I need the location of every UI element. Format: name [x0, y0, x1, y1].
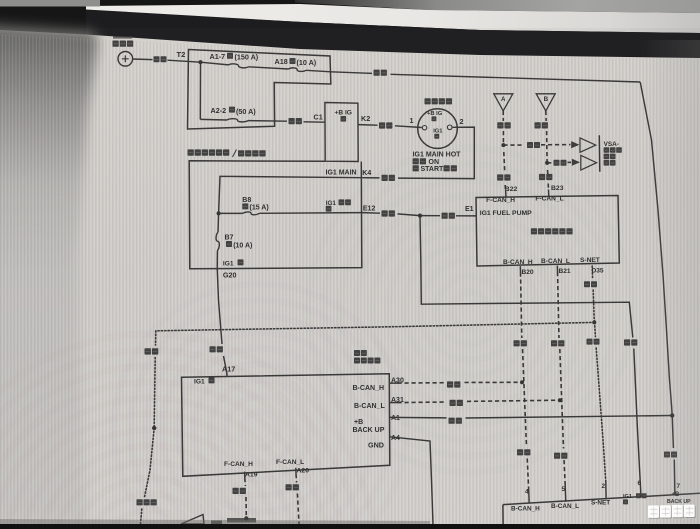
wire fuse B8 junction down to fuse B7 [217, 213, 220, 232]
ignition switch pin 1 contact [422, 126, 426, 130]
color label brown on A17 wire [210, 346, 216, 352]
junction dot white F-CAN_H [501, 143, 505, 147]
color label blue (lan-se) on K4 wire [382, 175, 388, 181]
fuse A18 element [289, 68, 307, 72]
dashed wire white to VSA [503, 144, 524, 146]
cut-off text above battery label [113, 36, 132, 38]
wire fuse A1-7 to fuse A18 [249, 67, 289, 69]
color label blue on pin6 wire [624, 339, 630, 345]
arrowhead into VSA upper [572, 142, 579, 148]
black header bar of displayed page [86, 10, 700, 58]
junction dot red net at pin7 column [670, 413, 674, 417]
top-right gray backdrop band [0, 0, 1, 1]
color label red on +B pin7 wire [664, 452, 670, 458]
fuse B8 element [243, 212, 260, 215]
color label red on VSA wire [554, 160, 560, 166]
color label blue on A31 wire [450, 400, 456, 406]
color label red on A20 wire [286, 484, 292, 490]
junction dot on S-NET dotted net [592, 320, 596, 324]
dashed wire B20 B-CAN_H (pink) down to pin 4 [521, 273, 522, 339]
body control unit box [476, 196, 619, 267]
bottom control unit box edge [503, 493, 700, 504]
dotted wire D35 S-NET down to pin 2 [591, 266, 593, 279]
color label black (hei-se) on battery wire [154, 56, 160, 62]
junction dot pink at A30 join [520, 380, 524, 384]
color label pink on A30 wire [447, 381, 453, 387]
wire to fuse A2-2 [200, 118, 227, 121]
VSA unit bracket line [598, 135, 601, 172]
color label white on A19 wire [233, 488, 239, 494]
color label white (bai-se) on C1 wire [289, 118, 295, 124]
junction dot red F-CAN_L [545, 161, 549, 165]
top-left gray streak of backdrop [0, 0, 100, 7]
dashed wire A20 F-CAN_L (red) down [295, 474, 298, 483]
arrowhead into VSA lower [572, 159, 579, 165]
battery [118, 52, 133, 67]
dotted wire S-NET down left side [155, 331, 157, 345]
wire A1 +B BACK UP (red) to right junction [390, 416, 447, 419]
junction dot blue at A31 join [558, 398, 562, 402]
color label blue on E12 wire [382, 210, 388, 216]
instrument control unit box [182, 374, 390, 477]
wire red +B junction to pin 7 [672, 416, 673, 449]
wire white label to pin C1 [304, 121, 325, 123]
color label blue before E1 [442, 213, 448, 219]
wire G20 down to A17 (brown) [217, 268, 222, 344]
fuse B7 element (vertical) [216, 232, 219, 251]
wire red +B from fuse A18 to right side [331, 72, 372, 74]
wire fuse A2-2 to label white [248, 120, 287, 123]
wire battery to fuse box T2 [132, 58, 152, 61]
battery fuse box outline [188, 50, 331, 130]
stub pin B21 [556, 266, 558, 272]
dotted wire S-NET across page to left [156, 322, 595, 330]
color label red above B23 [539, 174, 545, 180]
dashed wire red to VSA [547, 162, 552, 164]
color label red on S-NET mid [587, 339, 593, 345]
label zhu inside connector [341, 116, 347, 122]
junction dot at T2 branch [198, 60, 202, 64]
VSA modulator buffer lower [581, 155, 597, 170]
under-dash fuse/relay box outline [189, 161, 362, 269]
dashed wire triangle A down to B22 (white) [502, 111, 504, 121]
ignition switch pin 2 contact [447, 125, 452, 130]
wire fuse B8 to pin E12 [260, 212, 362, 215]
fuse A1-7 element [229, 64, 249, 68]
stub pin B20 [519, 266, 521, 272]
color label white above B22 [497, 174, 503, 180]
wire E12 to junction (blue) [362, 212, 380, 215]
color label red (hong-se) on +B wire [374, 70, 380, 76]
fuse A2-2 element [227, 119, 248, 122]
color label brown (zong-se) on K2 wire [379, 122, 385, 128]
label body control unit (che-shen-kong-zhi-dan-yuan) [531, 228, 537, 234]
color label blue upper on B21 wire [551, 340, 557, 346]
wire A4 GND down [390, 437, 433, 524]
color label red on S-NET upper [584, 281, 590, 287]
dashed wire A30 B-CAN_H (pink) to B20 [390, 382, 398, 384]
junction dot on left S-NET wire [152, 426, 156, 430]
color label light brown (qian-zong-se) [137, 499, 143, 505]
color label pink (fen-se) upper [514, 340, 520, 346]
color label red on left S-NET wire [145, 348, 151, 354]
left shadow band on screen [0, 24, 98, 524]
color label red below triangle B [535, 122, 541, 128]
dashed wire B21 B-CAN_L (blue) down to pin 5 [558, 272, 560, 338]
color label pink lower [517, 449, 523, 455]
wire K4 feed inside box to fuses [219, 176, 363, 213]
wire end dot below A19 [244, 516, 248, 520]
white screen-edge strip [86, 4, 700, 33]
label under-dash fuse/relay box [188, 149, 194, 155]
label zhu inside switch bottom [434, 134, 439, 139]
connector triangle A [494, 94, 513, 111]
wire red +B down right side to junction [640, 82, 672, 416]
junction dot at fuse B8 branch [217, 211, 221, 215]
junction dot on blue fuel-pump net [418, 214, 422, 218]
wire K2 to ignition switch pin 1 [358, 124, 377, 127]
wire ignition pin 2 down to K4 [398, 127, 474, 179]
fuse A1-7 (150A) wire [201, 62, 229, 65]
watermark autohome (qi-che-zhi-jia) [649, 506, 660, 518]
color label white below triangle A [497, 122, 503, 128]
wire junction to fuse B8 [219, 212, 243, 214]
color label red on A1 wire [449, 418, 455, 424]
wire fuse A18 to box edge [306, 70, 331, 72]
color label white on VSA wire [527, 142, 533, 148]
label and START mode [413, 165, 419, 171]
color label blue lower on B21 wire [554, 453, 560, 459]
connector box +B IG [325, 103, 358, 162]
stub pin A20 [295, 468, 297, 474]
right edge vignette [0, 0, 1, 1]
VSA modulator buffer upper [580, 138, 596, 152]
label ignition switch (dian-huo-kai-guan) [425, 98, 431, 104]
label zhu inside switch top [432, 116, 437, 121]
dashed wire triangle B down to B23 (red) [545, 111, 547, 121]
wire fuse B7 to G20 [216, 251, 218, 269]
dashed wire A31 B-CAN_L (blue) to B21 [390, 402, 398, 404]
wire blue net down and right to pin 6 [420, 216, 633, 338]
cut-off text marks bottom left [211, 521, 222, 525]
label instrument control unit [354, 350, 360, 356]
dashed wire A19 F-CAN_H (white) down [244, 478, 247, 486]
label key-in ON [413, 158, 419, 164]
bottom edge shading [0, 519, 430, 524]
connector triangle B [536, 94, 555, 111]
cut-off connector triangle bottom left [181, 515, 204, 525]
wire T2 branch down to fuse A2-2 [199, 62, 201, 119]
label battery (xu-dian-chi) [113, 41, 119, 47]
ignition switch circle [418, 109, 458, 149]
stub pin A19 [244, 472, 246, 478]
wire junction to pin E1 [420, 215, 440, 217]
